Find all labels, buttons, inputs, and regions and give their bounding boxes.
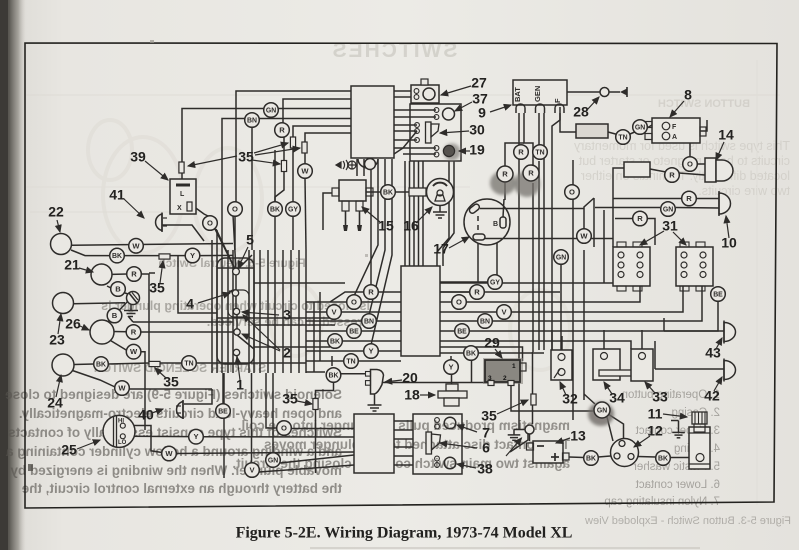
svg-text:BE: BE [218,408,228,415]
wire [664,330,724,332]
buzzer icon left of block foot [336,160,356,170]
callout 32 [560,382,578,407]
wire [266,373,277,428]
svg-text:BK: BK [270,206,280,213]
wire [236,91,351,209]
svg-text:GEN: GEN [533,86,542,102]
wire [440,311,497,313]
svg-text:O: O [456,298,462,307]
wire [234,216,236,250]
wire [560,249,562,257]
wire label BK [326,368,341,383]
svg-text:BK: BK [96,361,106,368]
battery 13 [533,441,563,463]
wire [440,291,470,293]
wire [227,250,229,373]
svg-text:GN: GN [556,254,566,261]
wire [504,183,506,200]
svg-text:2: 2 [283,345,291,361]
wire [696,198,719,200]
svg-text:BK: BK [330,338,340,345]
wire [630,128,644,134]
svg-text:19: 19 [469,142,485,158]
wire label TN [616,130,631,145]
svg-text:40: 40 [138,407,154,423]
handlebar switch housing main box (37/30/19) [410,104,461,161]
svg-text:A: A [672,134,677,141]
svg-text:43: 43 [705,345,721,361]
callout 35 [155,368,179,390]
wire label O [203,216,218,231]
wire [252,118,351,120]
wire [608,132,623,136]
wire [306,360,344,362]
svg-text:R: R [528,169,534,178]
wire [440,347,523,361]
wire label O [683,157,698,172]
svg-text:R: R [131,328,137,337]
callout 18 [404,387,435,403]
wire [413,161,415,266]
wire [394,420,413,422]
wire [232,250,234,373]
indicator lamp 14 [705,158,716,182]
svg-text:41: 41 [109,187,125,203]
wire [394,130,417,132]
wire [176,452,354,454]
svg-text:BK: BK [329,372,339,379]
wire [319,292,321,361]
wire label GN [266,453,281,468]
wire [237,335,254,349]
terminal block foot detail [358,159,378,168]
wire [259,465,354,472]
wire [306,371,325,373]
svg-text:BK: BK [586,455,596,462]
svg-text:BN: BN [480,318,490,325]
lamp 21 [91,264,112,285]
wire [236,355,238,364]
ground screw [127,292,140,305]
wire [394,446,413,448]
wire label BK [268,202,283,217]
callout 35 [188,143,300,166]
wire [561,336,563,353]
wire [505,143,524,169]
svg-text:The contact disc attached to t: The contact disc attached to the plunger… [264,437,570,452]
wire [323,193,332,230]
callout 26 [65,316,89,332]
wire label TN [182,356,197,371]
ground (horn) [439,206,441,212]
callout 21 [64,257,93,273]
wire [199,254,233,256]
wire [679,173,705,175]
svg-text:38: 38 [477,461,493,477]
wire label BE [455,324,470,339]
svg-text:22: 22 [48,204,64,220]
wire [271,108,351,110]
callout 3 [242,307,291,323]
wire [341,373,366,375]
wire [254,282,345,284]
svg-text:BK: BK [466,350,476,357]
wire [275,137,284,202]
wire [655,368,724,370]
connector 35 [313,399,318,410]
wire [484,291,560,293]
wire [384,159,386,176]
ground (flasher) [374,394,376,399]
svg-text:R: R [279,126,285,135]
ground (coil canister) [678,427,680,432]
svg-text:B: B [115,285,121,294]
wire label R [523,165,539,181]
wire [204,436,354,438]
wire label O [228,202,243,217]
callout 22 [48,204,64,232]
svg-text:BK: BK [658,455,668,462]
wire label R [497,166,513,182]
wire label TN [344,354,359,369]
wire [403,153,436,155]
stoplight switch 32 [551,350,572,380]
wire [280,455,354,463]
callout 14 [716,127,734,160]
wire [638,456,656,459]
svg-text:TN: TN [535,149,544,156]
svg-text:4: 4 [186,296,194,312]
button 7 [444,417,456,429]
connector 35 [302,142,307,153]
svg-text:O: O [687,160,693,169]
wire [169,255,185,257]
headlamp 25 [103,415,135,447]
svg-text:Figure 5-3. Button Switch - E: Figure 5-3. Button Switch - Exploded Vie… [585,515,791,527]
wire [648,219,655,246]
wire [369,176,385,315]
wire label BK [656,451,671,466]
svg-text:against two main switch contac: against two main switch contacts closing… [232,456,570,471]
wire [293,126,351,202]
wire label R [126,325,141,340]
svg-text:GN: GN [663,206,673,213]
wire label V [497,305,512,320]
wire label BE [216,404,231,419]
wire [160,362,182,364]
wire [440,352,464,354]
circuit breaker / timer 17 [464,199,510,245]
callout 5 [238,232,254,268]
svg-text:R: R [669,171,675,180]
wire [305,133,351,164]
svg-text:15: 15 [378,218,394,234]
wire [450,356,452,360]
callout 23 [49,314,65,348]
wire [394,90,416,92]
wire [663,318,665,331]
wire [584,394,595,404]
wire [608,414,624,440]
wire [567,91,601,93]
callout 27 [441,75,487,95]
svg-text:20: 20 [402,370,418,386]
svg-text:BUTTON SWITCH: BUTTON SWITCH [658,98,750,110]
wire [223,373,225,478]
svg-text:B: B [112,311,118,320]
svg-text:18: 18 [404,387,420,403]
wire [363,159,365,176]
wire [216,250,218,373]
voltage regulator 8 [652,118,700,143]
svg-text:34: 34 [609,390,625,406]
wire [306,350,364,352]
callout 29 [484,335,502,358]
svg-text:23: 23 [49,332,65,348]
relay block 31 left [613,247,650,286]
callout 7 [457,425,490,441]
wire [371,176,392,345]
svg-text:O: O [232,205,238,214]
wire [221,250,223,373]
wire [140,331,233,333]
svg-text:BE: BE [349,328,359,335]
wire [272,373,274,453]
wire [274,250,276,373]
svg-text:24: 24 [47,395,63,411]
wire [291,428,354,430]
wire [598,456,611,457]
wire [394,109,436,111]
wire [543,113,545,350]
wire [211,250,213,373]
wire [254,324,335,326]
wire label O [347,295,362,310]
wire [595,207,660,209]
wire [122,292,128,294]
wire [551,330,553,350]
svg-text:13: 13 [570,428,586,444]
wire [248,250,250,373]
svg-text:3: 3 [283,307,291,323]
wire [330,292,364,302]
wire [235,274,237,290]
svg-text:16: 16 [403,218,419,234]
wire [437,161,449,266]
callout 4 [186,293,230,312]
button 19 (dark) [444,144,461,161]
wire [292,216,294,250]
wire label TN [533,145,548,160]
terminal 28 circle and plug [600,88,609,97]
wire [236,315,238,329]
wire [71,370,115,387]
wire label BK [381,185,396,200]
contact 5 [233,268,240,275]
wire [538,161,540,350]
svg-text:BN: BN [247,117,257,124]
wire [306,330,347,332]
wire [141,274,149,362]
svg-text:26: 26 [65,316,81,332]
speedo lamp 40 [177,402,183,419]
lamp 42 [724,361,736,380]
callout 35 [149,261,165,296]
connector 35 [149,361,160,366]
svg-text:7: 7 [482,425,490,441]
wire [306,311,327,313]
fuse right side [624,162,650,177]
callout 11 [648,406,687,422]
wire [283,99,351,123]
svg-text:X: X [177,205,182,212]
wire [184,389,212,404]
wire [108,363,149,364]
svg-text:BK: BK [112,253,122,260]
wire [313,302,315,372]
wire [394,116,436,118]
diagram border frame [25,43,777,508]
wire label Y [364,344,379,359]
svg-text:17: 17 [433,241,449,257]
wire label GN [594,402,610,418]
wire [697,163,705,165]
switch 37 circle [443,108,455,120]
starter relay 12 [611,439,639,467]
callout 9 [478,105,511,121]
scan specks [28,464,33,471]
switch housing 6/7/38 [413,414,462,474]
wire [306,320,362,322]
smudged circle R2 [514,171,540,197]
connector 35 [290,137,295,148]
wire [211,240,213,250]
wire [440,281,488,283]
wire label W [162,446,177,461]
lamp 24 [52,354,74,376]
svg-text:31: 31 [662,218,678,234]
wire [650,169,666,172]
wire [354,176,378,296]
callout 35 [481,400,528,424]
svg-text:29: 29 [484,335,500,351]
svg-text:35: 35 [481,408,497,424]
wire label R [275,123,290,138]
wire label O [277,421,292,436]
svg-text:Y: Y [448,363,453,372]
wire label R [470,285,485,300]
lamp 26 [90,320,114,344]
wire [700,120,707,131]
main terminal block (top center) [351,86,394,158]
ignition switch body (center, contacts 1-5) [217,258,254,364]
wire [113,331,127,333]
wire [532,352,534,424]
horn 16 [427,179,454,206]
wire [216,230,218,250]
ignition coil 15 [339,180,366,201]
wire [395,191,409,193]
switch 34 [593,349,620,380]
svg-text:O: O [281,424,287,433]
wire [689,143,691,157]
callout 42 [704,377,722,404]
callout 20 [385,370,418,386]
wire label O [565,185,580,200]
svg-text:BN: BN [364,318,374,325]
wire label R [514,145,529,160]
callout 33 [645,382,668,405]
wire [274,216,276,250]
wire [394,429,413,431]
wire label R [682,191,697,206]
svg-text:BE: BE [457,328,467,335]
callout 10 [721,216,737,251]
handlebar switch housing upper (component 27 box) [411,85,439,103]
wire label R [633,211,648,226]
wire label GY [286,202,301,217]
connector 35 [159,254,170,259]
wire [477,241,479,282]
smudged circle R [490,171,516,195]
callout 40 [138,407,163,423]
wire label Y [444,360,459,375]
callout 1 [236,357,244,393]
wire label V [327,305,342,320]
wire [361,330,401,332]
scan gutter dark band left edge [0,0,26,550]
wire [133,321,233,323]
wire [213,225,236,271]
wire [235,296,237,308]
switch 33 [631,349,653,381]
svg-text:located differently. Terminals: located differently. Terminals on either [581,169,790,183]
wire [377,159,379,176]
wire [615,218,632,220]
svg-text:33: 33 [652,389,668,405]
wire [298,250,300,373]
svg-text:30: 30 [469,122,485,138]
wire [440,282,488,284]
svg-text:8: 8 [684,87,692,103]
svg-text:W: W [301,167,309,176]
wire [478,352,544,354]
svg-text:GY: GY [490,279,500,286]
svg-text:R: R [637,214,643,223]
wire label W [115,381,130,396]
svg-text:9: 9 [478,105,486,121]
wire [613,168,624,196]
wire label BE [347,324,362,339]
svg-text:Figure 5-2E. Wiring Diagram,: Figure 5-2E. Wiring Diagram, 1973-74 Mod… [236,525,573,542]
callout 25 [61,440,100,458]
wire [306,340,328,342]
pilot lamp 41 [156,214,162,231]
ground (battery) [513,430,515,435]
wire [333,368,335,369]
svg-text:L: L [180,191,185,198]
wire [378,350,401,352]
wire label B [107,308,122,323]
smudged circle GN bottom [588,402,614,426]
wire [378,291,401,293]
connector 35 [531,394,536,405]
svg-text:6. Lower contact: 6. Lower contact [635,479,720,491]
wire [394,96,416,98]
wire label W [129,239,144,254]
callout 39 [130,149,168,180]
wire label BK [464,346,479,361]
